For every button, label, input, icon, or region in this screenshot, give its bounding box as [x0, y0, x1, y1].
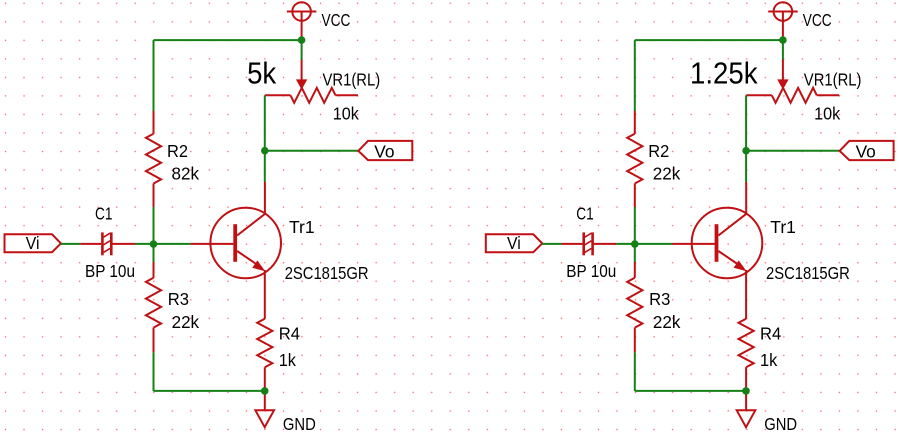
wire left rail middle (left circuit)	[153, 207, 155, 262]
svg-text:R3: R3	[168, 290, 189, 309]
junction node emitter-ground (left circuit)	[261, 387, 269, 395]
junction node emitter-ground (right circuit)	[742, 387, 750, 395]
transistor Tr1 2SC1815GR (left circuit)	[191, 208, 281, 279]
svg-text:Vo: Vo	[374, 141, 394, 161]
svg-text:R4: R4	[760, 324, 781, 343]
svg-text:GND: GND	[283, 415, 316, 434]
svg-text:VCC: VCC	[322, 12, 351, 31]
svg-text:10k: 10k	[814, 104, 841, 124]
input port flag Vi (right circuit)	[486, 234, 542, 252]
wire Vi to C1 (right circuit)	[542, 243, 561, 245]
ground symbol GND (left circuit)	[255, 410, 274, 427]
wire left rail lower (right circuit)	[634, 352, 636, 391]
svg-text:R3: R3	[649, 290, 670, 309]
power symbol VCC (right circuit)	[768, 2, 798, 40]
svg-text:10k: 10k	[333, 104, 360, 124]
wire left rail lower (left circuit)	[153, 352, 155, 391]
emitter lead (left circuit)	[264, 270, 266, 319]
svg-text:2SC1815GR: 2SC1815GR	[766, 264, 850, 283]
wire collector rail (right circuit)	[745, 95, 747, 182]
junction node base (left circuit)	[150, 240, 158, 248]
svg-text:1.25k: 1.25k	[690, 56, 758, 91]
svg-text:BP 10u: BP 10u	[85, 262, 135, 281]
collector lead (right circuit)	[745, 182, 747, 214]
wire VCC horizontal (right circuit)	[635, 39, 783, 41]
capacitor C1 (bipolar) (left circuit)	[80, 232, 135, 255]
svg-text:R2: R2	[167, 142, 188, 162]
emitter lead (right circuit)	[745, 270, 747, 319]
wire bottom horizontal (right circuit)	[635, 390, 746, 392]
resistor R4 (right circuit)	[739, 319, 754, 368]
svg-text:1k: 1k	[279, 351, 297, 371]
R4 lead to ground (left circuit)	[264, 367, 266, 410]
output port flag Vo (right circuit)	[840, 141, 894, 160]
wire left rail upper (left circuit)	[153, 40, 155, 111]
junction node Vo (left circuit)	[261, 147, 269, 155]
wire C1 to base junction (right circuit)	[616, 243, 672, 245]
svg-text:Tr1: Tr1	[770, 217, 796, 237]
potentiometer VR1(RL) body (left circuit)	[265, 88, 358, 103]
potentiometer VR1(RL) body (right circuit)	[746, 88, 839, 103]
wire Vo (left circuit)	[265, 150, 359, 152]
svg-text:VCC: VCC	[803, 12, 832, 31]
capacitor C1 (bipolar) (right circuit)	[562, 232, 617, 255]
resistor R2 (right circuit)	[627, 111, 642, 207]
svg-text:GND: GND	[764, 415, 797, 434]
resistor R3 (left circuit)	[146, 262, 161, 352]
junction node VCC (left circuit)	[298, 36, 306, 44]
svg-text:VR1(RL): VR1(RL)	[804, 70, 862, 89]
svg-text:5k: 5k	[247, 56, 276, 91]
wire Vi to C1 (left circuit)	[61, 243, 80, 245]
collector lead (left circuit)	[264, 182, 266, 214]
svg-text:Vi: Vi	[26, 233, 40, 253]
wire collector rail (left circuit)	[264, 95, 266, 182]
svg-text:Tr1: Tr1	[289, 217, 315, 237]
wire bottom horizontal (left circuit)	[154, 390, 265, 392]
svg-text:R4: R4	[279, 324, 300, 343]
junction node Vo (right circuit)	[742, 147, 750, 155]
resistor R3 (right circuit)	[627, 262, 642, 352]
wire VCC to VR1 wiper (left circuit)	[301, 40, 303, 59]
wire C1 to base junction (left circuit)	[135, 243, 191, 245]
wire VCC to VR1 wiper (right circuit)	[782, 40, 784, 59]
junction node VCC (right circuit)	[779, 36, 787, 44]
output port flag Vo (left circuit)	[358, 141, 412, 160]
transistor Tr1 2SC1815GR (right circuit)	[672, 208, 762, 279]
svg-text:R2: R2	[648, 142, 669, 162]
svg-text:Vo: Vo	[856, 141, 876, 161]
svg-text:2SC1815GR: 2SC1815GR	[285, 264, 369, 283]
potentiometer VR1(RL) wiper arrow (left circuit)	[296, 60, 307, 90]
wire VCC horizontal (left circuit)	[154, 39, 302, 41]
svg-text:C1: C1	[576, 205, 593, 224]
svg-text:Vi: Vi	[507, 233, 521, 253]
svg-text:C1: C1	[95, 205, 112, 224]
svg-text:BP 10u: BP 10u	[566, 262, 616, 281]
svg-text:VR1(RL): VR1(RL)	[323, 70, 381, 89]
svg-text:22k: 22k	[172, 312, 200, 332]
svg-text:22k: 22k	[653, 163, 681, 183]
svg-text:22k: 22k	[653, 312, 681, 332]
ground symbol GND (right circuit)	[737, 410, 756, 427]
power symbol VCC (left circuit)	[287, 2, 317, 40]
potentiometer VR1(RL) wiper arrow (right circuit)	[777, 60, 788, 90]
svg-text:82k: 82k	[172, 163, 200, 183]
junction node base (right circuit)	[631, 240, 639, 248]
resistor R4 (left circuit)	[257, 319, 272, 368]
svg-text:1k: 1k	[760, 351, 778, 371]
R4 lead to ground (right circuit)	[745, 367, 747, 410]
wire left rail middle (right circuit)	[634, 207, 636, 262]
wire Vo (right circuit)	[746, 150, 840, 152]
input port flag Vi (left circuit)	[5, 234, 61, 252]
wire left rail upper (right circuit)	[634, 40, 636, 111]
resistor R2 (left circuit)	[146, 111, 161, 207]
